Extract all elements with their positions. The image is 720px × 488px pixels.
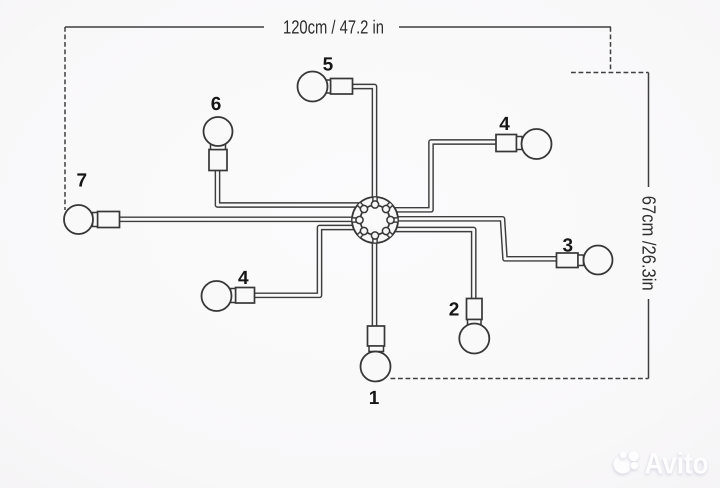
socket of bulb 2 xyxy=(467,299,483,325)
bulb 3 xyxy=(584,246,613,275)
svg-text:Avito: Avito xyxy=(645,448,709,481)
dimension height: vertical line lower segment xyxy=(648,299,650,379)
bulb 7 xyxy=(64,205,93,234)
socket of bulb 6 xyxy=(209,145,227,171)
socket of bulb 5 xyxy=(326,79,353,95)
dimension height: bottom dashed extension line xyxy=(391,378,649,380)
svg-text:2: 2 xyxy=(449,300,460,321)
dimension height: vertical line upper segment xyxy=(648,73,650,188)
bulb 2 xyxy=(459,324,489,354)
wire to bulb 1 xyxy=(372,240,378,328)
socket of bulb 3 xyxy=(557,253,584,268)
bulb 5 xyxy=(298,72,328,102)
wire to bulb 5 xyxy=(348,87,375,203)
socket of lower-left bulb 4 xyxy=(231,288,255,304)
svg-text:7: 7 xyxy=(77,171,88,192)
hub canopy outer circle xyxy=(352,197,398,243)
bulb 6 xyxy=(204,117,233,146)
bulb 1 xyxy=(361,352,391,382)
socket of bulb 1 xyxy=(368,326,385,352)
lower-left bulb 4 xyxy=(202,281,232,311)
hub nub NW xyxy=(360,205,367,212)
wire to bulb 3 xyxy=(395,219,558,259)
svg-text:3: 3 xyxy=(563,236,574,257)
hub radial stubs xyxy=(353,198,398,243)
dimension height: top dashed extension line xyxy=(571,72,649,74)
wire to bulb 2 xyxy=(394,230,474,301)
svg-text:67cm /26.3in: 67cm /26.3in xyxy=(638,196,659,291)
dimension width: right dashed extension line xyxy=(610,27,612,73)
dimension width: horizontal line right segment xyxy=(399,26,611,28)
wire to bulb 6 xyxy=(218,168,361,205)
svg-text:4: 4 xyxy=(499,114,510,135)
hub nub N xyxy=(371,201,378,208)
hub nub E xyxy=(387,216,394,223)
hub nub NE xyxy=(382,205,389,212)
hub inner circle xyxy=(360,205,390,235)
svg-text:120cm / 47.2 in: 120cm / 47.2 in xyxy=(283,18,384,39)
socket of bulb 7 xyxy=(93,212,120,228)
svg-text:5: 5 xyxy=(323,55,334,76)
svg-text:1: 1 xyxy=(369,388,380,409)
dimension width: horizontal line left segment xyxy=(65,26,264,28)
svg-text:4: 4 xyxy=(238,268,249,289)
wire to lower-left bulb 4 xyxy=(252,228,357,296)
upper-right bulb 4 xyxy=(522,129,552,159)
dimension width: left dashed extension line xyxy=(64,27,66,210)
hub nub SE xyxy=(382,227,389,234)
hub nub SW xyxy=(360,227,367,234)
hub nub S xyxy=(371,232,378,239)
wire to upper-right bulb 4 xyxy=(393,142,498,210)
watermark Avito logo circles xyxy=(614,448,709,481)
socket of upper-right bulb 4 xyxy=(496,135,522,152)
wire to bulb 7 xyxy=(116,216,356,222)
hub nub W xyxy=(356,216,363,223)
svg-text:6: 6 xyxy=(211,94,222,115)
